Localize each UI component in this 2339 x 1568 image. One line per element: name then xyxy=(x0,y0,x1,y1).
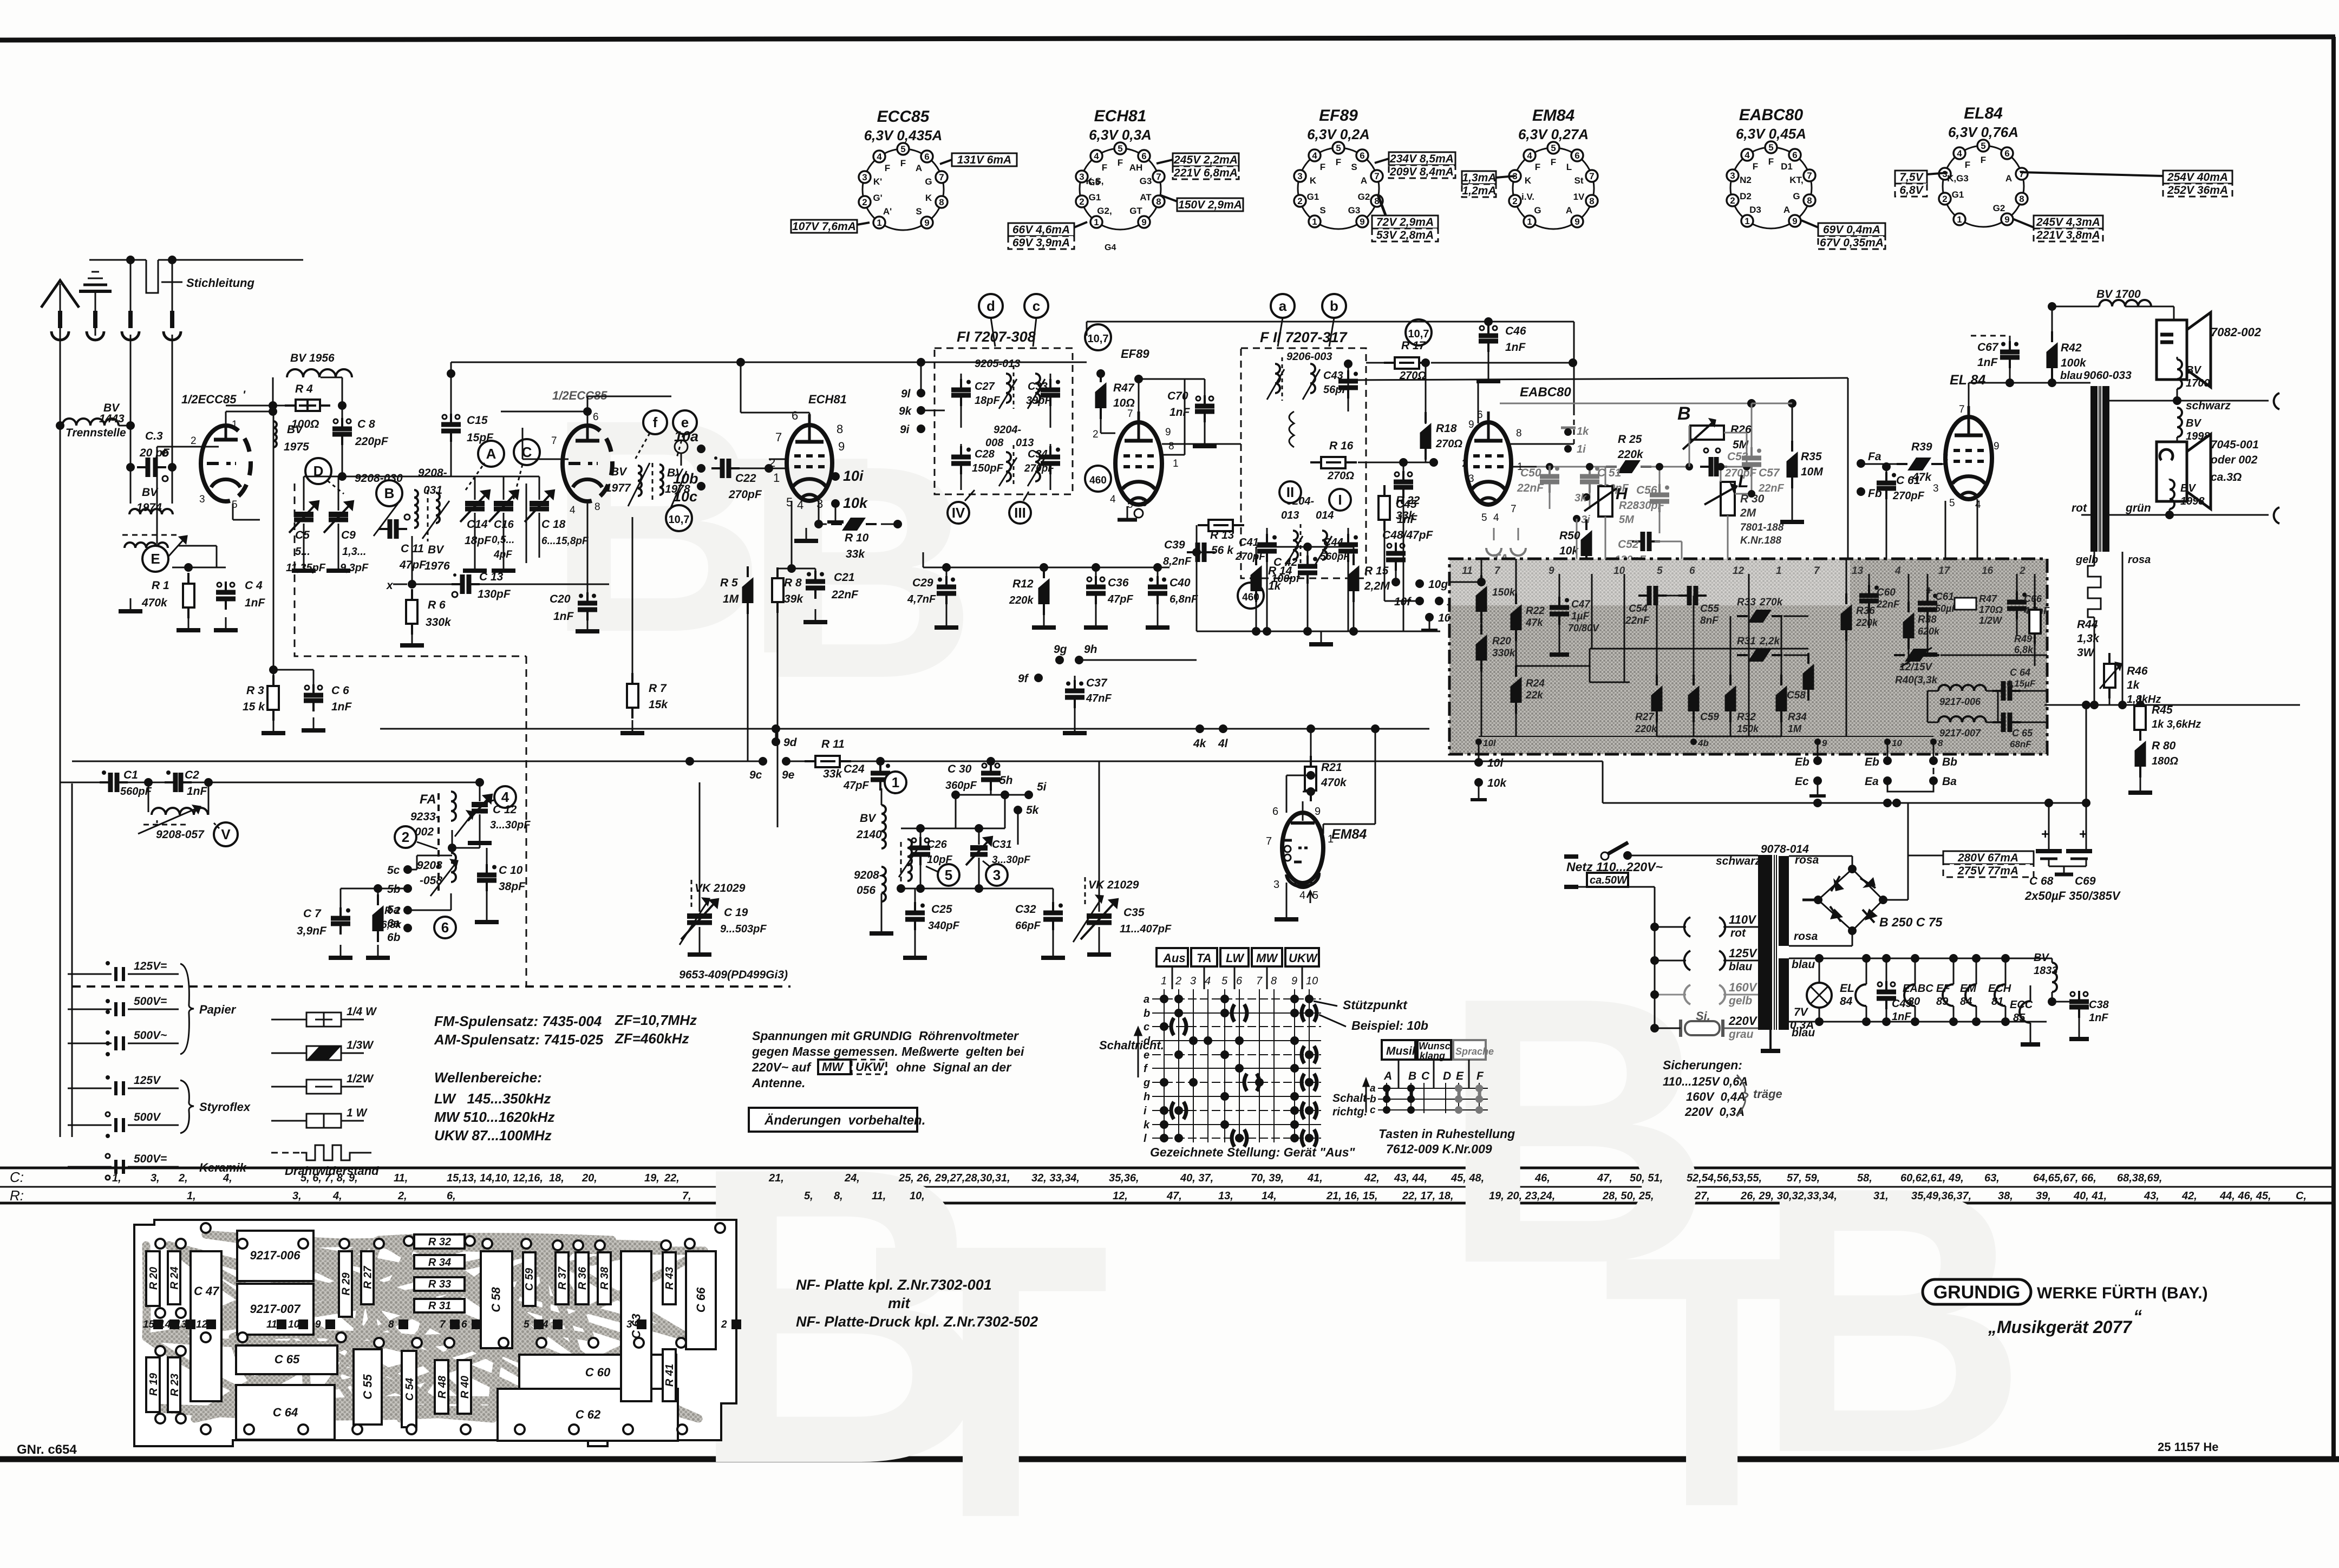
wire EL84 cathode down to NF box xyxy=(1945,499,1977,559)
svg-text:1/3W: 1/3W xyxy=(347,1039,374,1051)
wire osc mid node xyxy=(901,795,1005,833)
grey box extra vertical 2 xyxy=(1624,574,1625,682)
svg-text:25, 26, 29,27,28,30,31,: 25, 26, 29,27,28,30,31, xyxy=(898,1172,1010,1184)
svg-text:UKW: UKW xyxy=(1289,951,1318,965)
grey box wires mid xyxy=(1590,616,1808,682)
svg-text:3,: 3, xyxy=(151,1172,160,1184)
svg-text:C22: C22 xyxy=(735,472,756,485)
svg-text:EM84: EM84 xyxy=(1532,107,1575,125)
svg-text:1: 1 xyxy=(892,774,899,790)
terminals TA xyxy=(1486,528,1526,566)
svg-text:BV: BV xyxy=(2186,364,2201,376)
svg-text:81: 81 xyxy=(1991,996,2003,1008)
svg-text:270pF: 270pF xyxy=(1892,490,1925,502)
grey box component C55 8nF xyxy=(1678,586,1719,626)
svg-text:110V: 110V xyxy=(1729,913,1757,926)
svg-text:270pF: 270pF xyxy=(1235,551,1266,563)
detector bus grey xyxy=(1500,399,1756,453)
svg-text:100pf: 100pf xyxy=(1271,573,1301,585)
svg-text:Styroflex: Styroflex xyxy=(199,1100,251,1114)
svg-text:27,: 27, xyxy=(1694,1190,1710,1202)
wire R3 C6 node xyxy=(273,411,313,687)
svg-text:6: 6 xyxy=(1236,975,1243,987)
terminal 3k xyxy=(1574,492,1590,504)
svg-text:5M: 5M xyxy=(1619,514,1635,526)
svg-text:6: 6 xyxy=(1360,151,1364,161)
circled 6 node xyxy=(434,917,456,938)
svg-text:b: b xyxy=(1144,1008,1150,1020)
circled 1 node xyxy=(885,772,906,793)
svg-text:6: 6 xyxy=(1689,565,1695,577)
svg-text:BV: BV xyxy=(142,486,159,499)
svg-text:UKW: UKW xyxy=(855,1060,885,1074)
svg-text:C 10: C 10 xyxy=(499,864,523,877)
terminal Eb1 xyxy=(1795,742,1822,768)
svg-text:6,8nF: 6,8nF xyxy=(1169,593,1198,605)
matrix column wires xyxy=(1161,975,1318,1142)
wire H pot down to NF box xyxy=(1605,539,1606,559)
coil BV1976 xyxy=(414,490,450,572)
svg-text:3: 3 xyxy=(1933,483,1939,494)
svg-text:R 1: R 1 xyxy=(152,579,169,592)
svg-text:VK 21029: VK 21029 xyxy=(695,882,746,894)
circled D node xyxy=(305,458,344,494)
pcb outline xyxy=(134,1220,736,1446)
svg-text:7: 7 xyxy=(1156,172,1161,182)
pcb resistor R27 xyxy=(361,1251,374,1304)
svg-text:GRUNDIG: GRUNDIG xyxy=(1933,1282,2021,1303)
svg-text:18pF: 18pF xyxy=(975,395,1000,407)
circled 5 node xyxy=(926,864,959,886)
grey box extra vertical 1 xyxy=(1591,574,1593,649)
wire R1 top xyxy=(172,567,226,569)
heater bus top xyxy=(1789,954,2052,971)
svg-text:221V 6,8mA: 221V 6,8mA xyxy=(1173,167,1238,179)
svg-text:1998: 1998 xyxy=(2180,495,2205,507)
svg-text:S: S xyxy=(916,206,922,217)
wire variable cap bus xyxy=(304,476,539,478)
svg-text:ECC85: ECC85 xyxy=(877,108,930,126)
svg-text:12: 12 xyxy=(1733,565,1745,577)
svg-text:16: 16 xyxy=(1982,565,1994,577)
legend brace Papier xyxy=(180,964,237,1054)
capacitor C41 270pF xyxy=(1235,528,1277,578)
svg-text:6,3V 0,3A: 6,3V 0,3A xyxy=(1089,127,1152,143)
svg-text:i.V.: i.V. xyxy=(1521,192,1534,202)
svg-text:C 30: C 30 xyxy=(948,763,972,775)
svg-text:7,: 7, xyxy=(682,1190,691,1202)
svg-text:ECH81: ECH81 xyxy=(1094,107,1147,125)
svg-text:39k: 39k xyxy=(784,593,803,605)
voltage box 254V/252V at EL84 pin7 xyxy=(2020,171,2232,197)
svg-text:25 1157 He: 25 1157 He xyxy=(2158,1440,2219,1454)
svg-text:9060-033: 9060-033 xyxy=(2083,369,2132,382)
svg-text:1: 1 xyxy=(877,218,881,228)
svg-text:BV: BV xyxy=(2034,952,2049,964)
svg-text:1: 1 xyxy=(1776,565,1782,577)
svg-text:7: 7 xyxy=(1494,565,1501,577)
svg-text:C60: C60 xyxy=(1877,587,1896,598)
capacitor C2 1nF xyxy=(165,769,208,798)
svg-text:8: 8 xyxy=(1156,197,1161,207)
svg-text:G5: G5 xyxy=(1088,178,1100,187)
svg-text:14: 14 xyxy=(159,1319,171,1330)
variable cap C35 xyxy=(1081,761,1172,955)
svg-text:Stützpunkt: Stützpunkt xyxy=(1343,998,1408,1012)
pcb capacitor C65 xyxy=(236,1345,337,1374)
svg-text:R24: R24 xyxy=(1526,678,1545,689)
label Trennstelle xyxy=(66,427,126,439)
svg-text:„Musikgerät 2077: „Musikgerät 2077 xyxy=(1988,1317,2133,1337)
wire ECC85b top to bus xyxy=(587,396,671,411)
wire EF89 pin7 up xyxy=(1134,375,1205,422)
terminal 9d xyxy=(772,724,798,749)
svg-text:9206-003: 9206-003 xyxy=(1286,351,1332,363)
svg-text:220k: 220k xyxy=(1855,617,1878,628)
svg-text:7: 7 xyxy=(551,435,557,447)
svg-text:C 62: C 62 xyxy=(576,1408,601,1421)
voltage box 245V/221V at ECH81 pin6 xyxy=(1157,153,1239,179)
svg-text:1833: 1833 xyxy=(2034,965,2058,977)
coil BV1998 b xyxy=(2170,479,2205,515)
label 2x50uF xyxy=(2024,889,2121,903)
svg-text:C57: C57 xyxy=(1759,467,1780,479)
svg-text:4: 4 xyxy=(1493,512,1499,524)
svg-text:FM-Spulensatz: 7435-004: FM-Spulensatz: 7435-004 xyxy=(434,1013,602,1029)
svg-text:schwarz: schwarz xyxy=(2186,400,2231,412)
svg-text:160V 0,4A: 160V 0,4A xyxy=(1686,1090,1746,1103)
svg-text:32, 33,34,: 32, 33,34, xyxy=(1031,1172,1080,1184)
svg-text:ECH81: ECH81 xyxy=(808,393,847,406)
terminal Ea xyxy=(1865,775,1892,788)
box Aenderungen vorbehalten xyxy=(749,1108,925,1132)
svg-text:60,62,61, 49,: 60,62,61, 49, xyxy=(1900,1172,1964,1184)
svg-text:50, 51,: 50, 51, xyxy=(1630,1172,1663,1184)
svg-text:k: k xyxy=(1144,1119,1150,1131)
variable cap C19 xyxy=(681,782,767,955)
svg-text:Papier: Papier xyxy=(199,1003,237,1016)
svg-text:C.3: C.3 xyxy=(145,430,163,442)
coil FII det primary xyxy=(1285,524,1303,567)
svg-text:10l: 10l xyxy=(1483,738,1497,748)
svg-text:4: 4 xyxy=(542,1319,548,1330)
svg-text:9: 9 xyxy=(1360,217,1364,227)
wire R13 column xyxy=(1192,525,1201,631)
wire 5c stub xyxy=(408,855,452,870)
circled 4 node xyxy=(485,786,516,808)
svg-text:V: V xyxy=(221,826,231,842)
wire R47 to EF89 grid xyxy=(1101,408,1115,433)
svg-text:9: 9 xyxy=(1822,738,1827,748)
svg-text:2x50µF 350/385V: 2x50µF 350/385V xyxy=(2024,889,2121,903)
bus line 9c 9e xyxy=(72,757,763,766)
legend resistor 1/3W xyxy=(271,1039,374,1060)
power transformer sec bar heater xyxy=(1779,958,1789,1030)
svg-text:ca.50W: ca.50W xyxy=(1590,874,1628,886)
svg-text:C2: C2 xyxy=(185,769,199,781)
svg-text:EABC80: EABC80 xyxy=(1520,385,1571,400)
grey box component R36 220k xyxy=(1841,559,1879,736)
terminal 10c xyxy=(673,482,705,505)
svg-text:R 29: R 29 xyxy=(341,1272,352,1296)
svg-text:R 32: R 32 xyxy=(428,1236,451,1248)
terminal 9l xyxy=(901,362,925,400)
circled e node xyxy=(673,410,697,458)
grey box extra vertical 3 xyxy=(1748,574,1750,736)
resistor R80 180 xyxy=(2128,730,2178,793)
circled 10,7 top xyxy=(1085,324,1111,350)
box ca50W xyxy=(1587,873,1628,887)
grey box cap C64 xyxy=(1992,667,2047,701)
wire EL84 grid stub xyxy=(1945,460,1946,468)
svg-text:R20: R20 xyxy=(1492,636,1511,647)
svg-text:4: 4 xyxy=(1312,151,1317,161)
svg-text:R32: R32 xyxy=(1737,711,1756,723)
svg-text:träge: träge xyxy=(1753,1087,1782,1101)
pcb solder rings xyxy=(155,1223,725,1434)
svg-text:C20: C20 xyxy=(550,593,571,605)
pcb capacitor C59 xyxy=(523,1252,535,1306)
svg-text:TA: TA xyxy=(1197,951,1212,965)
terminal 10k xyxy=(827,495,868,522)
FM box dashed bottom xyxy=(72,969,790,986)
coil BV1833 xyxy=(2034,952,2058,1006)
wire EL84 plate riser xyxy=(1969,378,2090,417)
grey box wire top row xyxy=(1449,578,1486,586)
capacitor C1 560pF xyxy=(100,769,152,798)
bottom thick border line xyxy=(0,1456,2339,1462)
coil BV1975 xyxy=(273,406,309,453)
svg-text:9233-: 9233- xyxy=(410,811,440,823)
svg-text:1/2ECC85: 1/2ECC85 xyxy=(181,393,237,406)
svg-text:AT: AT xyxy=(1140,192,1152,202)
tube 1/2ECC85-a oval xyxy=(201,426,251,501)
svg-text:Änderungen vorbehalten.: Änderungen vorbehalten. xyxy=(764,1113,925,1128)
capacitor C15 15pF xyxy=(441,374,494,476)
svg-text:A: A xyxy=(1566,205,1572,215)
svg-text:5: 5 xyxy=(1657,565,1663,577)
svg-text:20,: 20, xyxy=(582,1172,597,1184)
svg-text:C 42: C 42 xyxy=(1273,556,1298,569)
svg-text:5: 5 xyxy=(1336,143,1341,153)
voltage box 72V/53V at EF89 pin8 xyxy=(1372,195,1438,241)
grey box horizontal 1 xyxy=(1516,665,1590,667)
svg-text:BV 1956: BV 1956 xyxy=(290,352,335,364)
svg-text:B: B xyxy=(1408,1070,1416,1082)
svg-text:Trennstelle: Trennstelle xyxy=(66,427,126,439)
terminal 5k xyxy=(1014,804,1040,845)
svg-text:17: 17 xyxy=(1938,565,1951,577)
svg-text:C26: C26 xyxy=(927,839,948,851)
svg-text:9: 9 xyxy=(1468,419,1474,430)
svg-text:100k: 100k xyxy=(2061,357,2087,369)
svg-text:c: c xyxy=(1033,298,1040,314)
svg-text:A: A xyxy=(916,163,922,173)
svg-text:C 65: C 65 xyxy=(275,1353,300,1366)
svg-text:6,3V 0,45A: 6,3V 0,45A xyxy=(1736,126,1806,142)
svg-text:2,: 2, xyxy=(178,1172,188,1184)
svg-text:D1: D1 xyxy=(1781,161,1793,172)
svg-text:Ba: Ba xyxy=(1942,775,1957,788)
wire C61b down to NF box xyxy=(1886,514,1887,559)
logo GRUNDIG xyxy=(1923,1279,2031,1304)
ground C6 xyxy=(302,717,325,730)
svg-text:10l: 10l xyxy=(1487,757,1504,769)
wire R5 bottom run xyxy=(748,609,778,827)
svg-text:3,9nF: 3,9nF xyxy=(297,925,327,937)
svg-text:8: 8 xyxy=(1589,196,1594,206)
svg-text:3: 3 xyxy=(1273,879,1279,891)
terminal 10k below box xyxy=(1471,777,1507,800)
grey box bottom terminals xyxy=(1475,738,1943,748)
svg-text:3: 3 xyxy=(1297,171,1302,181)
svg-text:EM84: EM84 xyxy=(1331,827,1367,842)
svg-text:9: 9 xyxy=(315,1319,321,1330)
svg-text:9: 9 xyxy=(1165,427,1171,438)
svg-text:22nF: 22nF xyxy=(831,589,859,601)
button box Musik xyxy=(1382,1040,1419,1060)
resistor R21 470k xyxy=(1305,729,1347,801)
svg-text:C21: C21 xyxy=(834,571,855,584)
svg-text:G1: G1 xyxy=(1089,192,1101,202)
text 251157He xyxy=(2158,1440,2219,1454)
grey NF box dashdot border xyxy=(1449,559,2047,754)
svg-text:EL84: EL84 xyxy=(1964,104,2003,122)
svg-text:3k: 3k xyxy=(1574,492,1587,504)
wire R8 C21 tops xyxy=(778,569,815,573)
legend capacitor Papier 125V= xyxy=(68,960,179,981)
svg-text:056: 056 xyxy=(857,884,876,897)
wire L pot down to NF box xyxy=(1682,541,1728,559)
capacitor C20 1nF xyxy=(550,504,599,631)
svg-text:6: 6 xyxy=(1792,150,1797,160)
svg-text:K: K xyxy=(1310,175,1317,186)
svg-text:K: K xyxy=(925,193,932,203)
capacitor C24 47pF xyxy=(843,757,890,792)
svg-text:Wunsch: Wunsch xyxy=(1419,1041,1456,1051)
svg-text:G: G xyxy=(1534,205,1541,215)
svg-text:2140: 2140 xyxy=(856,828,882,841)
svg-text:C5: C5 xyxy=(295,529,310,541)
coil FII primary xyxy=(1267,357,1284,401)
svg-text:2: 2 xyxy=(402,829,409,845)
tap 125V blau xyxy=(1650,946,1758,973)
svg-text:C69: C69 xyxy=(2075,875,2096,887)
small matrix letters xyxy=(1383,1070,1484,1082)
svg-text:2,2M: 2,2M xyxy=(1364,580,1390,592)
svg-text:gelb: gelb xyxy=(2075,554,2098,566)
svg-text:6,3V 0,27A: 6,3V 0,27A xyxy=(1518,126,1589,142)
wire R18 down xyxy=(1425,449,1427,462)
wire B+ to caps xyxy=(1603,761,2090,807)
label rosa bottom xyxy=(1789,930,1852,946)
svg-text:G': G' xyxy=(873,193,882,203)
wire 9k into FI box xyxy=(921,410,945,411)
svg-text:1/4 W: 1/4 W xyxy=(347,1005,377,1018)
tube EM84 oval xyxy=(1282,813,1323,883)
svg-text:1: 1 xyxy=(232,419,238,430)
svg-text:G2,: G2, xyxy=(1097,206,1112,216)
svg-text:5: 5 xyxy=(1981,141,1985,151)
capacitor C51 390pF xyxy=(1580,463,1629,509)
svg-text:EF89: EF89 xyxy=(1121,347,1149,361)
grey box resistor bank 3 xyxy=(1725,616,1760,736)
svg-text:K': K' xyxy=(873,177,882,187)
svg-text:C 47: C 47 xyxy=(194,1284,220,1298)
svg-text:F: F xyxy=(1476,1070,1484,1082)
svg-text:R 11: R 11 xyxy=(821,738,845,750)
wire EM84 pin connections xyxy=(1275,724,1380,919)
svg-text:6...15,8pF: 6...15,8pF xyxy=(541,535,589,547)
svg-text:BV: BV xyxy=(611,466,628,478)
svg-text:Stichleitung: Stichleitung xyxy=(186,276,254,290)
svg-text:1975: 1975 xyxy=(284,441,309,453)
resistor R42 100k xyxy=(2047,302,2087,383)
svg-text:22nF: 22nF xyxy=(1625,615,1650,626)
svg-text:2: 2 xyxy=(1297,196,1302,206)
grey box component R33 270k xyxy=(1737,597,1808,623)
svg-text:C 54: C 54 xyxy=(404,1378,416,1401)
svg-text:10,7: 10,7 xyxy=(669,514,690,526)
label Beispiel 10b xyxy=(1319,1015,1428,1033)
wire decoupling top line xyxy=(923,552,1169,572)
resistor R10 33k xyxy=(831,518,902,560)
svg-text:C 18: C 18 xyxy=(541,518,566,531)
svg-text:9: 9 xyxy=(2004,214,2009,225)
wire C15 top to bus xyxy=(450,362,452,416)
svg-text:C52: C52 xyxy=(1618,538,1639,551)
resistor R4 100ohm xyxy=(269,383,347,430)
svg-text:7: 7 xyxy=(1589,171,1594,181)
svg-text:40, 37,: 40, 37, xyxy=(1180,1172,1213,1184)
resistor R44 meander xyxy=(2077,566,2101,705)
coil osc dashed sec xyxy=(899,839,920,888)
svg-text:4l: 4l xyxy=(1218,737,1229,750)
svg-text:Ec: Ec xyxy=(1795,775,1809,788)
label 9208-058 xyxy=(417,859,442,887)
svg-text:9: 9 xyxy=(1792,216,1797,226)
label 9204-013 014 FII xyxy=(1281,495,1334,521)
wire ECC85a plate up xyxy=(226,411,273,426)
text Spannungen note xyxy=(752,1029,1024,1090)
ground under EF89 xyxy=(1118,506,1143,520)
ground ECH81 cathode xyxy=(794,524,827,541)
svg-text:C48/47pF: C48/47pF xyxy=(1382,529,1434,541)
svg-text:C 60: C 60 xyxy=(585,1366,611,1379)
wire 3i down to NF box xyxy=(1576,539,1578,559)
svg-text:68,38,69,: 68,38,69, xyxy=(2117,1172,2162,1184)
svg-text:D2: D2 xyxy=(1740,191,1752,201)
circled I node xyxy=(1329,489,1351,511)
tube 1/2ECC85-a electrodes xyxy=(207,426,240,487)
svg-text:C9: C9 xyxy=(341,529,356,541)
pcb resistor R33 xyxy=(414,1277,465,1291)
svg-text:9g: 9g xyxy=(1054,643,1067,656)
coil BV1978 dashed core xyxy=(652,463,690,509)
svg-text:G4: G4 xyxy=(1105,243,1116,252)
svg-text:6: 6 xyxy=(1272,806,1278,818)
svg-text:G3: G3 xyxy=(1348,205,1361,215)
circled b node xyxy=(1322,294,1346,347)
svg-text:b: b xyxy=(1330,298,1338,314)
svg-text:56pF: 56pF xyxy=(1323,384,1349,396)
circled 460 second xyxy=(1238,583,1264,609)
label Schaltrichtg small xyxy=(1332,1079,1370,1118)
svg-text:ca.3Ω: ca.3Ω xyxy=(2211,471,2242,484)
svg-text:mit: mit xyxy=(888,1295,911,1311)
terminal 4k xyxy=(1193,724,1207,750)
svg-text:Wellenbereiche:: Wellenbereiche: xyxy=(434,1069,542,1086)
